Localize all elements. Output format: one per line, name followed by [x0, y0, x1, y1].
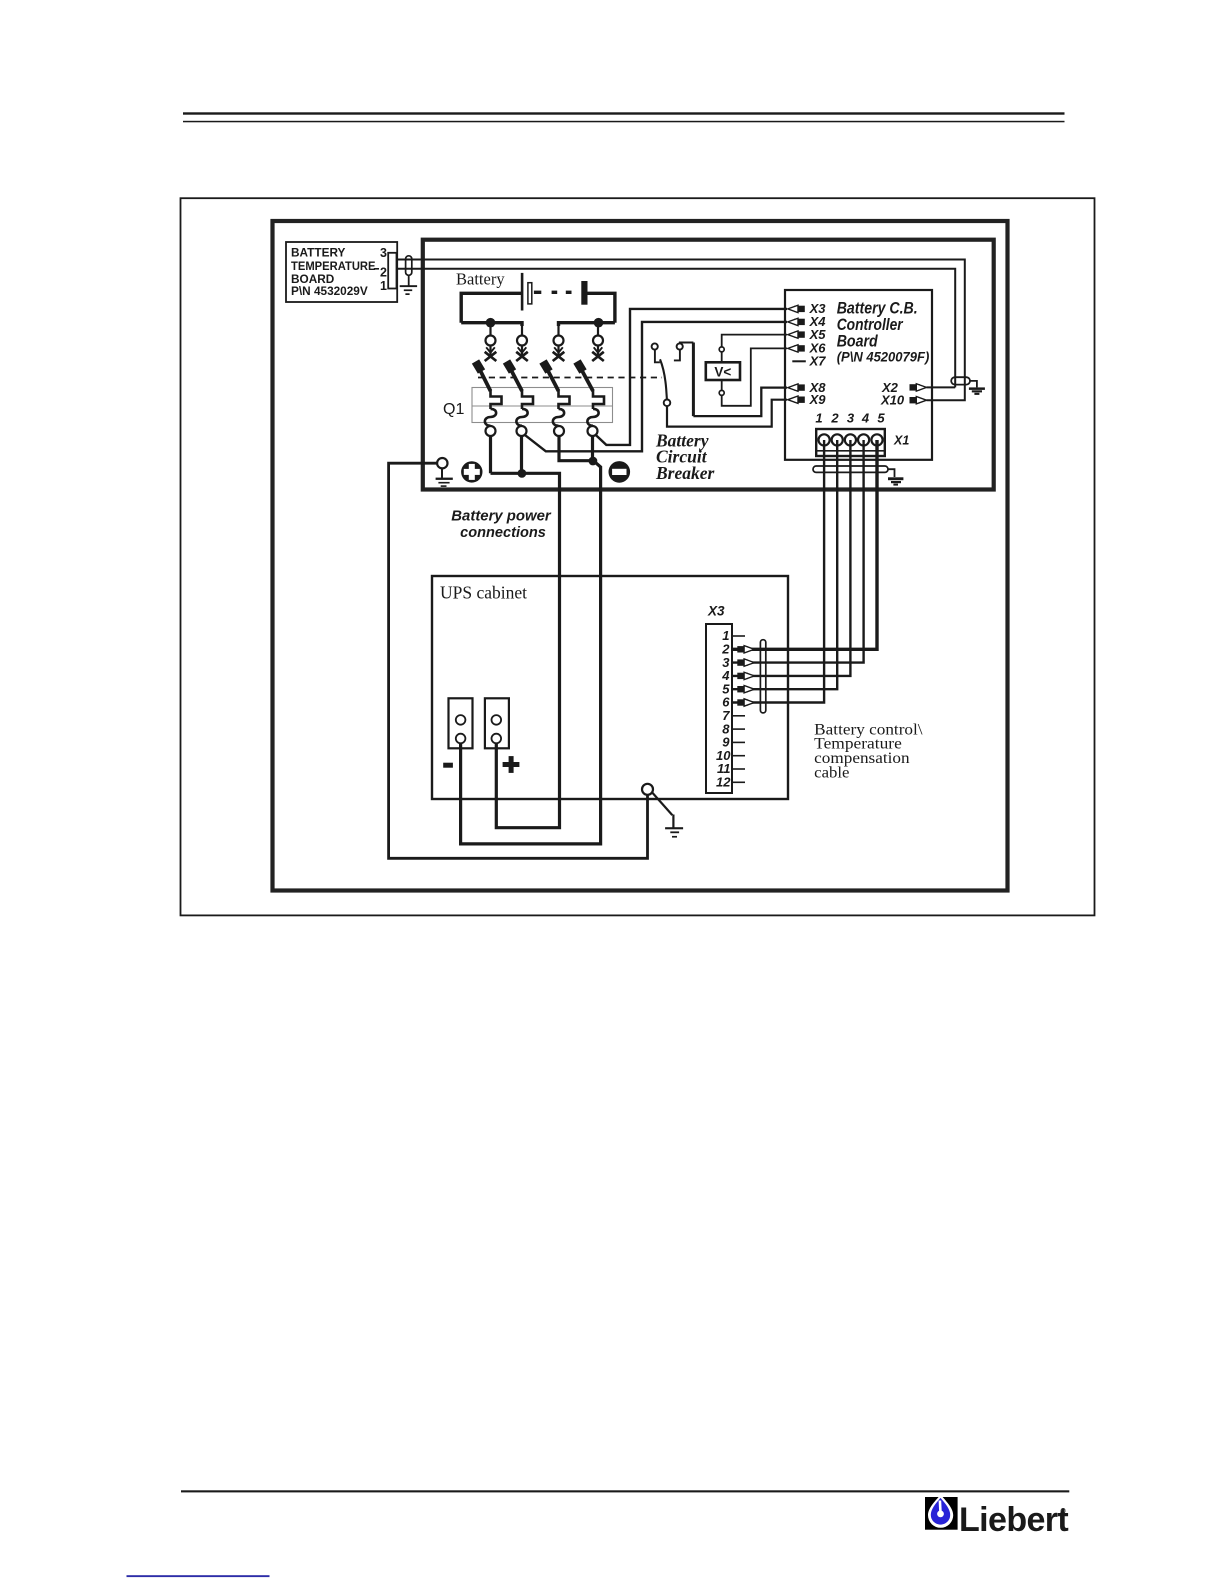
board pin X5 arrow [788, 331, 805, 338]
ferrite bead near X2 [951, 377, 970, 384]
label Battery control cable [814, 721, 923, 781]
node dot negative bus [589, 457, 598, 466]
wire: pole2 to X4 [525, 322, 788, 451]
V< bottom stub [721, 380, 723, 390]
node dot bus A [486, 318, 496, 328]
board title text [837, 300, 930, 365]
X1 terminal block [816, 429, 885, 456]
X3 pin 5 arrow [737, 686, 754, 693]
X3 connector box [706, 624, 732, 793]
svg-text:Battery power: Battery power [451, 509, 552, 525]
svg-text:Battery: Battery [456, 270, 505, 289]
svg-text:UPS cabinet: UPS cabinet [440, 583, 527, 603]
ground terminal (UPS cabinet) [642, 784, 653, 795]
svg-text:BATTERY: BATTERY [291, 246, 346, 260]
svg-text:connections: connections [460, 525, 546, 541]
wire: V< bottom to X6 [722, 348, 787, 405]
fuse F1 [485, 323, 497, 361]
UPS cabinet box [432, 576, 788, 799]
X3 pin 2 arrow [737, 646, 754, 653]
battery B1 end plate [581, 281, 587, 305]
svg-text:X5: X5 [809, 327, 827, 342]
node dot positive bus [518, 469, 527, 478]
svg-text:X1: X1 [893, 434, 909, 448]
wire: pin 1 to ground [408, 275, 410, 285]
battery bus right segment [559, 323, 615, 326]
breaker Q1 enclosure [472, 388, 613, 423]
ground symbol (battery cabinet) [436, 468, 453, 487]
fuse F3 [553, 323, 565, 361]
diagram border box [273, 221, 1008, 891]
wire X1-2 to pin 5 [732, 440, 837, 689]
aux switch blade [660, 359, 667, 399]
svg-text:2: 2 [380, 266, 387, 280]
V< bottom terminal [719, 390, 724, 395]
svg-text:2: 2 [830, 411, 839, 426]
svg-text:3: 3 [380, 246, 387, 260]
page footer rule [181, 1490, 1069, 1492]
X3 pin stubs 1,7-12 [732, 636, 745, 782]
battery B1 right lead wire [588, 293, 615, 322]
svg-text:®: ® [1061, 1508, 1067, 1516]
battery temperature board box [286, 242, 397, 302]
cable bead at X3 [760, 640, 765, 713]
connector J1 body [388, 253, 396, 289]
svg-text:1: 1 [380, 279, 387, 293]
ground symbol (UPS cabinet) [665, 815, 683, 838]
aux switch contact A [652, 343, 658, 349]
wire: negative bus [461, 436, 601, 844]
svg-text:X7: X7 [809, 354, 827, 369]
breaker Q1 pole 4 [577, 362, 604, 437]
V< top terminal [719, 347, 724, 352]
undervoltage release V< top wire to X5 [722, 335, 787, 347]
battery terminal block plus [485, 698, 509, 748]
label Battery power connections [451, 509, 552, 541]
wire: X1 bead to chassis ground [888, 469, 895, 477]
label Battery Circuit Breaker [655, 431, 715, 483]
aux switch bottom terminal [664, 400, 671, 407]
svg-text:Liebert: Liebert [959, 1501, 1068, 1539]
undervoltage release V< box [706, 362, 740, 380]
wire: X2 to ground junction [927, 386, 956, 388]
aux switch contact A lead [655, 350, 660, 363]
wire X1-1 to pin 6 [732, 440, 824, 703]
svg-text:X9: X9 [809, 392, 827, 407]
wire X1-3 to pin 4 [732, 440, 850, 676]
svg-text:3: 3 [847, 411, 855, 426]
breaker Q1 pole 2 [507, 362, 534, 437]
wire: pole4 to X3 [596, 309, 788, 445]
board pin X8 arrow [788, 384, 805, 391]
wire to UPS ground symbol [652, 793, 672, 816]
board pin X7 dash [792, 360, 806, 362]
svg-text:X10: X10 [880, 393, 905, 408]
battery B1 positive plate [521, 273, 524, 311]
battery cabinet box [423, 240, 994, 490]
svg-text:Battery C.B.: Battery C.B. [837, 300, 918, 318]
ground bond wire [389, 463, 648, 858]
X3 pin 6 arrow [737, 699, 754, 706]
svg-text:5: 5 [877, 411, 885, 426]
wire: bead to chassis ground [970, 381, 977, 388]
V< top stub [721, 352, 723, 362]
ferrite bead under X1 [813, 466, 888, 472]
figure outer frame [181, 198, 1095, 915]
svg-text:12: 12 [716, 775, 731, 790]
svg-text:cable: cable [814, 765, 849, 782]
wire: pin 2 down right side [397, 269, 955, 388]
chassis ground (right) [969, 387, 985, 395]
ground terminal (battery cabinet) [437, 458, 447, 468]
wire: positive bus [491, 436, 560, 828]
svg-text:TEMPERATURE: TEMPERATURE [291, 259, 376, 273]
svg-text:Board: Board [837, 333, 879, 351]
svg-text:Q1: Q1 [443, 401, 464, 418]
ferrite bead on temp board wires [406, 256, 412, 275]
wire: aux B to X8 [680, 342, 694, 345]
fuse F2 [516, 323, 528, 361]
svg-text:4: 4 [861, 411, 870, 426]
plus terminal symbol [461, 461, 482, 482]
dashed trip linkage [478, 377, 662, 379]
board pin X6 arrow [788, 345, 805, 352]
page header double rule [183, 112, 1065, 114]
svg-text:Breaker: Breaker [655, 463, 715, 483]
battery B1 negative plate [528, 283, 532, 304]
footer hyperlink underline [127, 1575, 270, 1577]
breaker Q1 pole 3 [543, 362, 570, 437]
X3 pin numbers [716, 628, 731, 789]
svg-text:1: 1 [815, 411, 822, 426]
X1 terminal numbers 1-5 [815, 411, 885, 426]
svg-text:P\N 4532029V: P\N 4532029V [291, 284, 368, 298]
pin 2 leader dash [374, 268, 379, 270]
battery cell dashes [534, 291, 572, 294]
minus terminal symbol [609, 461, 631, 483]
aux switch contact B [677, 343, 683, 349]
node dot bus B [594, 318, 604, 328]
board pin X9 arrow [788, 396, 805, 403]
breaker Q1 pole 1 [476, 362, 502, 437]
wire X1-5 to pin 2 [732, 440, 877, 649]
label plus [503, 756, 520, 773]
ground (temp board) [400, 285, 417, 295]
svg-text:V<: V< [714, 364, 731, 379]
Battery C.B. Controller Board box [785, 290, 932, 460]
board pin X4 arrow [788, 318, 805, 325]
svg-text:(P\N 4520079F): (P\N 4520079F) [837, 350, 930, 365]
board pin X3 arrow [788, 305, 805, 312]
wire: aux bottom to X9 [667, 400, 787, 427]
chassis ground (X1) [888, 477, 903, 485]
battery B1 left lead wire [461, 293, 521, 322]
aux switch contact B lead [674, 350, 680, 361]
wire: pin 3 to X10 [397, 260, 965, 401]
fuse F4 [592, 323, 604, 361]
label minus [443, 763, 453, 768]
battery bus left segment [461, 323, 522, 326]
svg-text:X3: X3 [707, 604, 725, 619]
Liebert logo mark [925, 1495, 958, 1530]
svg-text:Controller: Controller [837, 316, 904, 334]
battery terminal block minus [449, 698, 473, 748]
X3 pin 3 arrow [737, 659, 754, 666]
X3 pin 4 arrow [737, 672, 754, 679]
wire X1-4 to pin 3 [732, 440, 864, 663]
